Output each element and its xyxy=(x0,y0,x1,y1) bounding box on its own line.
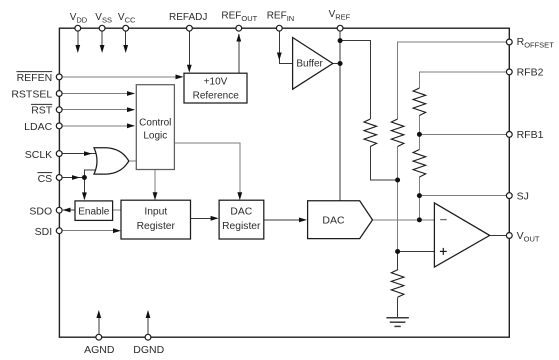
wire DAC output to op-amp inverting input xyxy=(373,219,435,221)
svg-text:REFEN: REFEN xyxy=(17,72,53,84)
DAC block xyxy=(308,201,373,239)
block Input Register xyxy=(121,200,191,239)
arrowhead CS to Enable (down) xyxy=(82,192,87,200)
svg-text:DAC: DAC xyxy=(322,215,345,227)
pin LDAC xyxy=(56,123,62,129)
wire R1 bottom to junction xyxy=(370,147,397,181)
wire LDAC to Control Logic xyxy=(62,125,134,127)
junction RFB1 node xyxy=(417,132,422,137)
pin RFB1 xyxy=(506,132,512,138)
arrowhead Control Logic to Input Register (down) xyxy=(153,192,158,200)
svg-text:+10V: +10V xyxy=(204,76,228,87)
arrowhead Input Register to DAC Register xyxy=(211,216,219,221)
pin SJ xyxy=(506,193,512,199)
arrowhead SDO (left) xyxy=(63,208,71,213)
svg-text:Buffer: Buffer xyxy=(296,59,323,70)
wire CS to junction xyxy=(62,177,84,179)
wire RFB1 node to resistor R4 xyxy=(418,134,420,149)
junction SJ node xyxy=(417,193,422,198)
pin REFADJ xyxy=(187,25,193,31)
wire Control Logic to DAC Register xyxy=(174,143,239,198)
wire OR gate output to Control Logic xyxy=(129,160,137,162)
pin VDD xyxy=(75,25,81,31)
pin SDO xyxy=(56,207,62,213)
arrowhead DGND (up) xyxy=(146,310,151,318)
wire Input Register to DAC Register xyxy=(191,217,218,219)
svg-text:SCLK: SCLK xyxy=(25,149,52,161)
op-amp output amplifier U3 xyxy=(434,203,489,267)
pin REFIN xyxy=(276,25,282,31)
pin VSS xyxy=(99,25,105,31)
svg-text:Reference: Reference xyxy=(193,90,240,101)
arrowhead REFIN (down) xyxy=(277,53,282,61)
wire R2 bottom through junction to plus node xyxy=(397,147,399,252)
wire R3 bottom to RFB1 node xyxy=(418,116,420,135)
block Enable xyxy=(75,201,113,221)
OR gate G1 xyxy=(94,148,129,174)
wire RST to Control Logic xyxy=(62,109,134,111)
arrowhead RSTSEL xyxy=(127,91,135,96)
wire REFEN to +10V Reference xyxy=(62,76,182,78)
junction non-inverting input node xyxy=(395,249,400,254)
wire DAC Register to DAC xyxy=(264,219,306,221)
resistor R3 xyxy=(413,88,426,116)
svg-text:CS: CS xyxy=(38,173,53,185)
wire AGND arrow stub xyxy=(98,317,100,334)
wire VDD arrow stub xyxy=(77,31,79,46)
arrowhead VCC xyxy=(123,45,128,53)
pin AGND xyxy=(96,334,102,340)
arrowhead REFEN xyxy=(176,75,184,80)
junction R1/R2 node xyxy=(395,178,400,183)
junction inverting input node xyxy=(417,217,422,222)
arrowhead VSS xyxy=(100,45,105,53)
pin RST xyxy=(56,107,62,113)
resistor R4 xyxy=(413,150,426,178)
arrowhead DAC Register to DAC xyxy=(299,218,307,223)
pin SCLK xyxy=(56,151,62,157)
block +10V Reference U2 xyxy=(184,73,247,103)
resistor R5 xyxy=(391,270,404,298)
pin RSTSEL xyxy=(56,91,62,97)
arrowhead SCLK xyxy=(84,151,92,156)
svg-text:SJ: SJ xyxy=(517,190,529,202)
arrowhead SDI xyxy=(113,228,121,233)
svg-text:DGND: DGND xyxy=(133,344,164,356)
svg-text:SDO: SDO xyxy=(29,205,52,217)
svg-text:Input: Input xyxy=(144,207,167,218)
wire Enable to Input Register xyxy=(113,209,122,211)
wire R5 to ground xyxy=(397,297,399,318)
svg-text:RFB1: RFB1 xyxy=(517,129,544,141)
arrowhead REFADJ xyxy=(187,65,192,73)
wire plus node to resistor R5 xyxy=(397,252,399,270)
arrowhead LDAC xyxy=(127,123,135,128)
wire VREF down to DAC xyxy=(339,31,341,201)
chip boundary box xyxy=(59,28,509,337)
junction CS node xyxy=(82,175,87,180)
wire RSTSEL to Control Logic xyxy=(62,93,134,95)
svg-text:Register: Register xyxy=(137,221,176,232)
wire RFB2 to resistor R3 xyxy=(419,72,509,88)
wire VCC arrow stub xyxy=(125,31,127,46)
wire SCLK to OR gate xyxy=(62,153,97,155)
wire R4 bottom to op-amp minus line xyxy=(418,177,420,220)
op-amp buffer U1 xyxy=(293,38,333,90)
wire plus node to op-amp non-inverting input xyxy=(398,251,435,253)
wire CS junction down to Enable xyxy=(83,178,85,199)
pin REFOUT xyxy=(236,25,242,31)
svg-text:LDAC: LDAC xyxy=(24,121,52,133)
pin VREF xyxy=(337,25,343,31)
svg-text:DAC: DAC xyxy=(230,207,252,218)
wire DGND arrow stub xyxy=(147,317,149,334)
wire VREF branch to resistor R1 xyxy=(340,41,370,119)
pin VCC xyxy=(123,25,129,31)
op-amp plus sign xyxy=(440,248,447,255)
resistor R1 xyxy=(364,119,377,147)
svg-text:SDI: SDI xyxy=(35,226,53,238)
pin REFEN xyxy=(56,74,62,80)
wire op-amp output to VOUT xyxy=(490,235,510,237)
pin RFB2 xyxy=(506,69,512,75)
svg-text:RSTSEL: RSTSEL xyxy=(11,88,52,100)
block DAC Register xyxy=(219,200,264,239)
svg-text:Register: Register xyxy=(222,221,261,232)
arrowhead Control Logic to DAC Register (down) xyxy=(237,192,242,200)
wire SJ to node xyxy=(419,195,509,197)
wire CS junction to OR gate xyxy=(84,170,97,178)
arrowhead VDD xyxy=(75,45,80,53)
wire REFADJ to +10V Reference xyxy=(188,31,190,66)
arrowhead AGND (up) xyxy=(96,310,101,318)
wire Control Logic to Input Register xyxy=(154,169,156,198)
pin DGND xyxy=(145,334,151,340)
wire RFB1 to node xyxy=(419,133,509,135)
svg-text:RFB2: RFB2 xyxy=(517,67,544,79)
wire +10V Reference to REFOUT xyxy=(238,34,240,73)
wire REFIN to Buffer xyxy=(279,31,292,64)
arrowhead REFOUT (up) xyxy=(236,34,241,42)
junction VREF branch node xyxy=(338,38,343,43)
svg-text:Logic: Logic xyxy=(143,131,167,142)
pin ROFFSET xyxy=(506,39,512,45)
resistor R2 xyxy=(391,119,404,147)
ground symbol xyxy=(386,318,408,327)
block Control Logic xyxy=(136,85,174,170)
svg-text:Control: Control xyxy=(139,118,171,129)
arrowhead CS xyxy=(72,175,80,180)
pin SDI xyxy=(56,228,62,234)
wire VSS arrow stub xyxy=(101,31,103,46)
wire Buffer output to VREF node xyxy=(333,63,340,65)
op-amp minus sign xyxy=(440,219,447,221)
svg-text:REFADJ: REFADJ xyxy=(169,12,207,23)
junction buffer output node xyxy=(338,61,343,66)
arrowhead RST xyxy=(127,107,135,112)
svg-text:Enable: Enable xyxy=(78,207,110,218)
pin CS xyxy=(56,175,62,181)
wire ROFFSET to resistor R2 xyxy=(398,42,510,119)
wire SDI to Input Register xyxy=(62,230,119,232)
wire Enable to SDO xyxy=(63,209,75,211)
svg-text:AGND: AGND xyxy=(84,344,115,356)
pin VOUT xyxy=(506,233,512,239)
svg-text:RST: RST xyxy=(31,105,53,117)
